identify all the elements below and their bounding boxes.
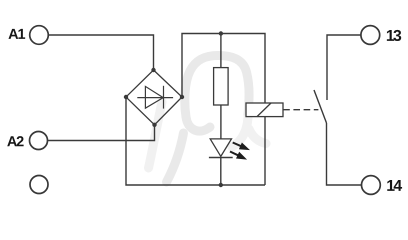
LED	[209, 139, 233, 158]
wire to resistor	[220, 34, 222, 68]
relay coil K1	[246, 103, 283, 117]
svg-text:A1: A1	[8, 27, 25, 43]
junction bridge right	[180, 95, 184, 99]
contact blade	[314, 90, 327, 123]
terminal 13	[361, 26, 380, 45]
wire coil to bottom rail	[264, 117, 266, 185]
wire A2 to bridge bottom	[48, 125, 155, 141]
terminal A2	[30, 132, 48, 150]
label 13	[386, 28, 402, 45]
mechanical link dashed	[283, 109, 318, 111]
wire contact to 14	[327, 123, 362, 185]
watermark logo	[167, 56, 250, 183]
LED emission arrows	[228, 139, 251, 163]
junction bridge left	[124, 95, 128, 99]
wire A1 to bridge top	[48, 35, 153, 70]
svg-text:A2: A2	[7, 134, 24, 150]
wire 13 to contact	[327, 35, 361, 100]
junction bridge top	[151, 68, 155, 72]
wire DC minus rail	[126, 97, 265, 185]
bridge rectifier	[126, 70, 182, 125]
terminal A1	[30, 26, 49, 45]
junction bottom rail	[219, 183, 223, 187]
unlabeled terminal	[30, 176, 48, 194]
junction bridge bottom	[152, 123, 156, 127]
junction top rail	[219, 31, 223, 35]
label A1	[8, 27, 25, 43]
resistor	[214, 68, 229, 105]
wire LED to bottom rail	[220, 158, 222, 186]
wire DC plus rail	[182, 34, 265, 104]
terminal 14	[362, 176, 381, 195]
svg-text:13: 13	[386, 28, 402, 45]
label A2	[7, 134, 24, 150]
svg-text:14: 14	[386, 178, 402, 195]
wire resistor to LED	[220, 105, 222, 139]
label 14	[386, 178, 402, 195]
